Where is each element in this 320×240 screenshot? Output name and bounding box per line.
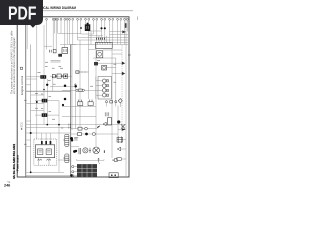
capacitor left cluster — [50, 50, 52, 53]
junction dot above relay — [87, 23, 89, 25]
extra drop e3 — [126, 20, 128, 31]
schematic frame outer — [17, 17, 129, 177]
heavy vertical x70 — [70, 45, 72, 177]
small comp above chain — [76, 71, 79, 74]
injector lead i4 — [96, 94, 103, 96]
row y121 — [26, 120, 31, 122]
label tick L14 — [114, 81, 117, 83]
thin wires — [26, 17, 128, 177]
row y146 left — [26, 146, 31, 148]
row y115b — [47, 114, 59, 116]
row y128 — [71, 128, 78, 130]
vertical x52 — [52, 76, 54, 91]
label tick L10 — [60, 67, 63, 69]
junction dot n2 — [104, 27, 106, 29]
label tick L5 — [49, 96, 52, 98]
wire y50 long — [103, 49, 122, 51]
connector circle c23 — [66, 18, 68, 20]
frame inner left divider — [25, 17, 27, 177]
wire drop w10 — [80, 20, 82, 34]
sensor drops s3 — [119, 103, 121, 107]
connector strip box top-right — [96, 42, 113, 48]
row y106 — [62, 106, 96, 108]
wire drop w15b — [90, 31, 92, 45]
connector circle c17 — [109, 18, 111, 20]
conn circle 2 — [72, 171, 74, 173]
tiny label smudge — [74, 138, 78, 140]
lamp 1 inner — [84, 149, 86, 151]
junction dot x36 row102 — [36, 101, 38, 103]
junction dot j44 — [43, 89, 45, 91]
dark grid connector block — [77, 164, 97, 177]
label tick L13 — [114, 63, 117, 65]
AT coil 1 — [38, 149, 43, 155]
connector circle c5 — [57, 18, 59, 20]
relay box mid-left — [62, 48, 68, 54]
row y128b — [82, 128, 85, 130]
switch symbol sw1 — [78, 100, 83, 106]
row y134 — [71, 133, 78, 135]
bus h1b — [89, 30, 102, 32]
plus bar — [89, 148, 91, 153]
wire y54 stub — [112, 53, 122, 55]
chain terminal circle a — [55, 75, 57, 77]
junction dot j72 — [71, 139, 74, 142]
injector lead o2 — [106, 85, 108, 87]
component chain box 1 — [52, 74, 55, 77]
label tick L19 — [24, 99, 27, 101]
junction dot j71b — [70, 174, 73, 177]
right rounded box symbol — [116, 157, 121, 160]
connector circle c20 — [120, 18, 122, 20]
junction dot row124 b — [58, 124, 60, 126]
junction dot x30 — [30, 132, 32, 134]
wire drop w14 — [96, 20, 98, 42]
wire stub y90 right — [84, 89, 96, 91]
row y84 — [26, 84, 31, 86]
long vertical x88 — [88, 31, 90, 99]
component chain box 2 — [57, 74, 61, 78]
long vertical x44a — [43, 25, 45, 99]
sensor stem 1 — [105, 101, 107, 103]
long vertical x115 — [115, 58, 117, 105]
wire drop w19 — [117, 20, 119, 44]
resistor coils — [105, 112, 109, 116]
component row2 dot — [85, 133, 88, 136]
switch symbol sw2 — [88, 100, 93, 106]
switch assembly triangle — [103, 122, 106, 126]
dark tick component — [94, 62, 98, 65]
pin connector strip 2 — [63, 154, 69, 163]
arrow small mid — [97, 125, 99, 128]
connector circle c2 — [52, 18, 54, 20]
diamond bulb sensor — [118, 99, 122, 103]
sensor stem 2 — [115, 101, 117, 103]
AT zigzag 2 — [47, 159, 51, 161]
wire drop w9 — [77, 20, 79, 40]
diode D2 — [122, 72, 125, 75]
long vertical x75 — [75, 83, 77, 129]
small comp near frame top — [125, 23, 127, 28]
bus right r1 — [110, 34, 129, 36]
injector square 1 — [106, 80, 108, 82]
connector circle c8 — [72, 18, 74, 20]
wire drop w11 — [85, 20, 87, 24]
conn leads r3 — [74, 175, 77, 177]
AT coil 2 cross — [47, 150, 50, 152]
svg-text:✱ ECU: ✱ ECU — [21, 122, 24, 130]
relay box inner ticks — [63, 49, 66, 52]
tick right of motor — [103, 150, 105, 153]
right link ry1 — [123, 139, 126, 141]
bottom connector box with dots — [109, 173, 118, 178]
marks above block — [98, 158, 100, 164]
title underline rule — [12, 10, 133, 12]
frame tick y55 — [128, 54, 131, 56]
conn circle 3 — [72, 175, 74, 177]
long vertical x96 — [95, 42, 97, 146]
row y175 — [26, 174, 71, 176]
component row2 box — [78, 133, 82, 136]
plus mark — [112, 159, 114, 161]
conn circle 1 — [72, 166, 74, 168]
svg-text:ent to the actual circuit show: ent to the actual circuit shown in the w… — [13, 37, 16, 94]
switch assembly box — [108, 118, 112, 125]
AT coil 2 — [46, 149, 51, 155]
junction dot big right — [117, 120, 120, 123]
component row1 circle — [85, 127, 88, 130]
svg-text:4A 1G 40A AM2 30A AM1: 4A 1G 40A AM2 30A AM1 — [12, 144, 16, 179]
wire drop w6 — [64, 20, 66, 47]
chain terminal circle b — [62, 75, 64, 77]
connector circle c6 — [64, 18, 66, 20]
right triangle symbol — [117, 147, 120, 151]
injector lead o3 — [106, 89, 108, 91]
drop to block d2 — [45, 133, 47, 145]
long vertical x47 — [46, 79, 48, 125]
svg-text:Engine control: Engine control — [20, 75, 24, 95]
relay block pin slits — [86, 26, 88, 29]
row y110 — [31, 110, 44, 112]
drop to block d1 — [41, 133, 43, 145]
junction dot row124 a — [46, 124, 48, 126]
wire drop w15d — [106, 36, 108, 43]
injector square 2 — [106, 85, 108, 87]
wire drop w4 — [55, 20, 57, 49]
row y76 — [26, 76, 40, 78]
PDF badge — [0, 0, 43, 28]
extra drop e1 — [60, 20, 62, 33]
vertical x36 upper — [36, 25, 38, 49]
label tick L12 — [97, 60, 100, 62]
connector circle c3 — [54, 18, 56, 20]
page background — [0, 0, 149, 198]
connector circle c9 — [77, 18, 79, 20]
injector 2 — [102, 84, 106, 88]
label tick L3 — [53, 83, 56, 85]
sensor box pair — [110, 101, 113, 103]
tiny mark outside frame — [137, 17, 139, 20]
wire y129 arrow lead — [118, 129, 122, 131]
sensor drops s1 — [106, 103, 108, 107]
row y100 — [35, 100, 42, 102]
AT coil 1 cross — [39, 150, 42, 152]
row y134b — [82, 133, 86, 135]
wire drop w15c — [98, 36, 100, 43]
connector circle c18 — [112, 18, 114, 20]
connector circle c22 — [60, 18, 62, 20]
connector circle c14 — [96, 18, 98, 20]
wire drop w18 — [112, 20, 114, 42]
AT entry tick 2 — [45, 141, 47, 144]
bus h5 — [60, 44, 128, 46]
injector square 3 — [106, 89, 108, 91]
bus h3 — [78, 39, 129, 41]
label tick L20 — [24, 143, 27, 145]
row y160b hooks — [77, 159, 105, 160]
wire drop w16 — [104, 20, 106, 42]
RB1 slits — [43, 99, 45, 101]
black box slits — [42, 76, 44, 78]
connector circle c12 — [88, 18, 90, 20]
drop to block d3 — [49, 133, 51, 145]
row y79 — [26, 78, 37, 80]
bus h4 — [97, 41, 128, 43]
label tick L23 — [59, 65, 62, 67]
connector circle c1 — [46, 18, 48, 20]
svg-text:PDF: PDF — [8, 4, 37, 24]
splice ticks row124 — [69, 124, 70, 126]
wire drop w20 — [120, 20, 122, 44]
connector circle c19 — [117, 18, 119, 20]
long vertical x118 — [117, 106, 119, 138]
sensor drops s2 — [115, 103, 117, 107]
injector lead o4 — [106, 94, 108, 96]
switch stem 1 — [79, 105, 81, 108]
wire drop w2 — [52, 20, 54, 49]
bus h2 — [78, 37, 129, 39]
long vertical x126 — [125, 17, 127, 177]
pin connector strip 1 — [63, 134, 69, 146]
label tick L18 — [61, 127, 63, 129]
box with circle mid-right — [102, 65, 107, 70]
row y100b — [47, 100, 59, 102]
label tick L9 — [90, 85, 93, 87]
wire y49 right — [89, 49, 96, 51]
wire drop w5 — [57, 20, 59, 33]
label tick L4 — [35, 93, 38, 95]
component label smudges — [24, 61, 116, 145]
junction dot j74 — [73, 150, 76, 153]
long vertical x80 — [79, 40, 81, 127]
extra drop e2 — [66, 20, 68, 44]
wire y76 chain — [50, 75, 72, 77]
connector circle c7 — [69, 18, 71, 20]
wire y44 stub — [71, 44, 76, 46]
pin tick row above strip — [97, 38, 105, 40]
grid block lines — [77, 164, 97, 177]
wire y67 — [107, 67, 116, 69]
component row2 circle — [92, 133, 95, 136]
injector lead i3 — [96, 89, 103, 91]
long vertical x36 — [36, 49, 38, 139]
label tick L16 — [41, 93, 43, 95]
label tick L17 — [41, 108, 43, 110]
resistor with end circles — [76, 89, 85, 92]
divider twin top — [26, 25, 28, 49]
row y134d — [95, 133, 118, 135]
svg-text:• Power source: • Power source — [16, 154, 20, 172]
AT entry tick 1 — [41, 141, 43, 144]
box circle — [103, 66, 106, 69]
label tick L7 — [35, 107, 38, 109]
row y115 — [35, 114, 42, 116]
connector circle c4 — [55, 18, 57, 20]
junction dot bottom x30 — [30, 171, 32, 173]
wire drop w8 — [72, 20, 74, 44]
connector circle c21 — [124, 18, 126, 20]
arrow marker right — [122, 128, 126, 131]
injector lead o1 — [106, 80, 108, 82]
splice ticks row127 — [69, 127, 70, 129]
heavy vertical x72 — [71, 45, 73, 131]
wire stub y90 left — [62, 89, 76, 91]
wire drop w13 — [93, 20, 95, 34]
label tick L22 — [52, 67, 55, 69]
top connector circles row — [46, 18, 129, 20]
component chain box 3 — [64, 74, 68, 78]
row y133 left — [26, 132, 70, 134]
bus h1 — [81, 33, 94, 35]
label tick L21 — [45, 65, 48, 67]
conn leads r1 — [74, 166, 77, 168]
junction dot j47 — [46, 84, 48, 86]
injector 3 — [102, 89, 106, 93]
junction dot j65 — [64, 84, 67, 87]
connector strip pins — [98, 42, 111, 44]
block leads b1 — [38, 158, 40, 166]
conn leads r2 — [74, 171, 77, 173]
long vertical x30 — [30, 45, 32, 173]
wire drop w21 — [124, 20, 126, 44]
hatch marks under cluster — [51, 61, 61, 63]
long vertical x44b — [43, 102, 45, 113]
RB2 slits — [43, 114, 45, 116]
wire drop w15 — [101, 20, 103, 42]
connector circle c10 — [80, 18, 82, 20]
wire drop w1 — [46, 20, 48, 49]
junction dot j76 — [75, 150, 77, 152]
row y95 — [31, 94, 44, 96]
row y91 — [26, 90, 70, 92]
label tick L6 — [49, 111, 52, 113]
AT dashed block — [34, 139, 57, 165]
connector circle c15 — [101, 18, 103, 20]
wire y73 — [112, 73, 122, 75]
row y86 — [50, 85, 76, 87]
switch stem 2 — [90, 105, 92, 108]
injector 1 — [102, 79, 106, 83]
row y172 — [26, 171, 64, 173]
small comp right of block — [115, 159, 118, 162]
wire drop w3 — [54, 20, 56, 33]
capacitor bottom — [79, 148, 81, 154]
junction dot left of relay — [80, 27, 82, 29]
small relay under strip — [97, 51, 103, 58]
junction dot n1 — [100, 27, 102, 29]
chain dot — [65, 75, 67, 77]
bus h6 — [44, 45, 52, 47]
wire y63 — [98, 62, 122, 64]
wire drop w12 — [88, 20, 90, 31]
junction dot j63 — [62, 104, 64, 106]
motor 2 inner cross — [94, 148, 98, 152]
injector lead i2 — [96, 85, 103, 87]
wire y58 — [93, 57, 116, 59]
row y116 — [62, 116, 96, 118]
junction dot j75 — [74, 85, 77, 88]
relay black RB1 — [42, 99, 48, 103]
wire drop w17 — [109, 20, 111, 42]
long vertical x112 — [111, 49, 113, 159]
block leads b2 — [48, 158, 50, 166]
long vertical x44c — [43, 117, 45, 125]
injector lead i1 — [96, 80, 103, 82]
label tick L11 — [45, 61, 48, 63]
row y72 with ticks — [76, 71, 89, 73]
engine control box glyph — [20, 67, 22, 69]
black box mid-left — [40, 75, 46, 79]
right link ry2 — [121, 148, 126, 150]
connector circle c16 — [104, 18, 106, 20]
bus h1c — [58, 33, 81, 35]
bus right r2 — [110, 31, 123, 33]
dashed vertical separator — [121, 45, 123, 133]
bottom connector dots — [111, 174, 113, 176]
junction dot j65b — [64, 98, 67, 101]
small dark box under cluster — [58, 54, 62, 57]
connector circle c11 — [85, 18, 87, 20]
component row1 box — [78, 127, 82, 130]
right comp grid symbol — [117, 136, 123, 143]
relay black RB2 — [42, 113, 48, 117]
row y134c — [88, 133, 92, 135]
AT inner box — [35, 145, 54, 158]
row y124 — [26, 124, 126, 126]
injector square 4 — [106, 94, 108, 96]
junction dot j71a — [70, 137, 73, 140]
label tick L8 — [52, 118, 55, 120]
row y103 — [26, 102, 44, 104]
row y128c — [87, 128, 97, 130]
connector circle c13 — [93, 18, 95, 20]
injector group box — [98, 77, 112, 100]
label tick L1 — [38, 72, 41, 74]
motor circle 2 — [93, 147, 100, 154]
AT entry tick 3 — [50, 141, 52, 144]
right link ry3 — [122, 158, 126, 160]
bus h1d — [89, 35, 104, 37]
lamp circle 1 — [83, 148, 88, 153]
crossed wire marker — [121, 124, 125, 128]
row y140 — [26, 139, 31, 141]
connector circle c24 — [126, 18, 128, 20]
arrow near frame y31 — [122, 30, 126, 33]
injector left rail — [95, 77, 97, 100]
tiny box cluster — [53, 50, 56, 53]
AT zigzag 1 — [38, 159, 42, 161]
row y146 hook — [71, 146, 80, 148]
